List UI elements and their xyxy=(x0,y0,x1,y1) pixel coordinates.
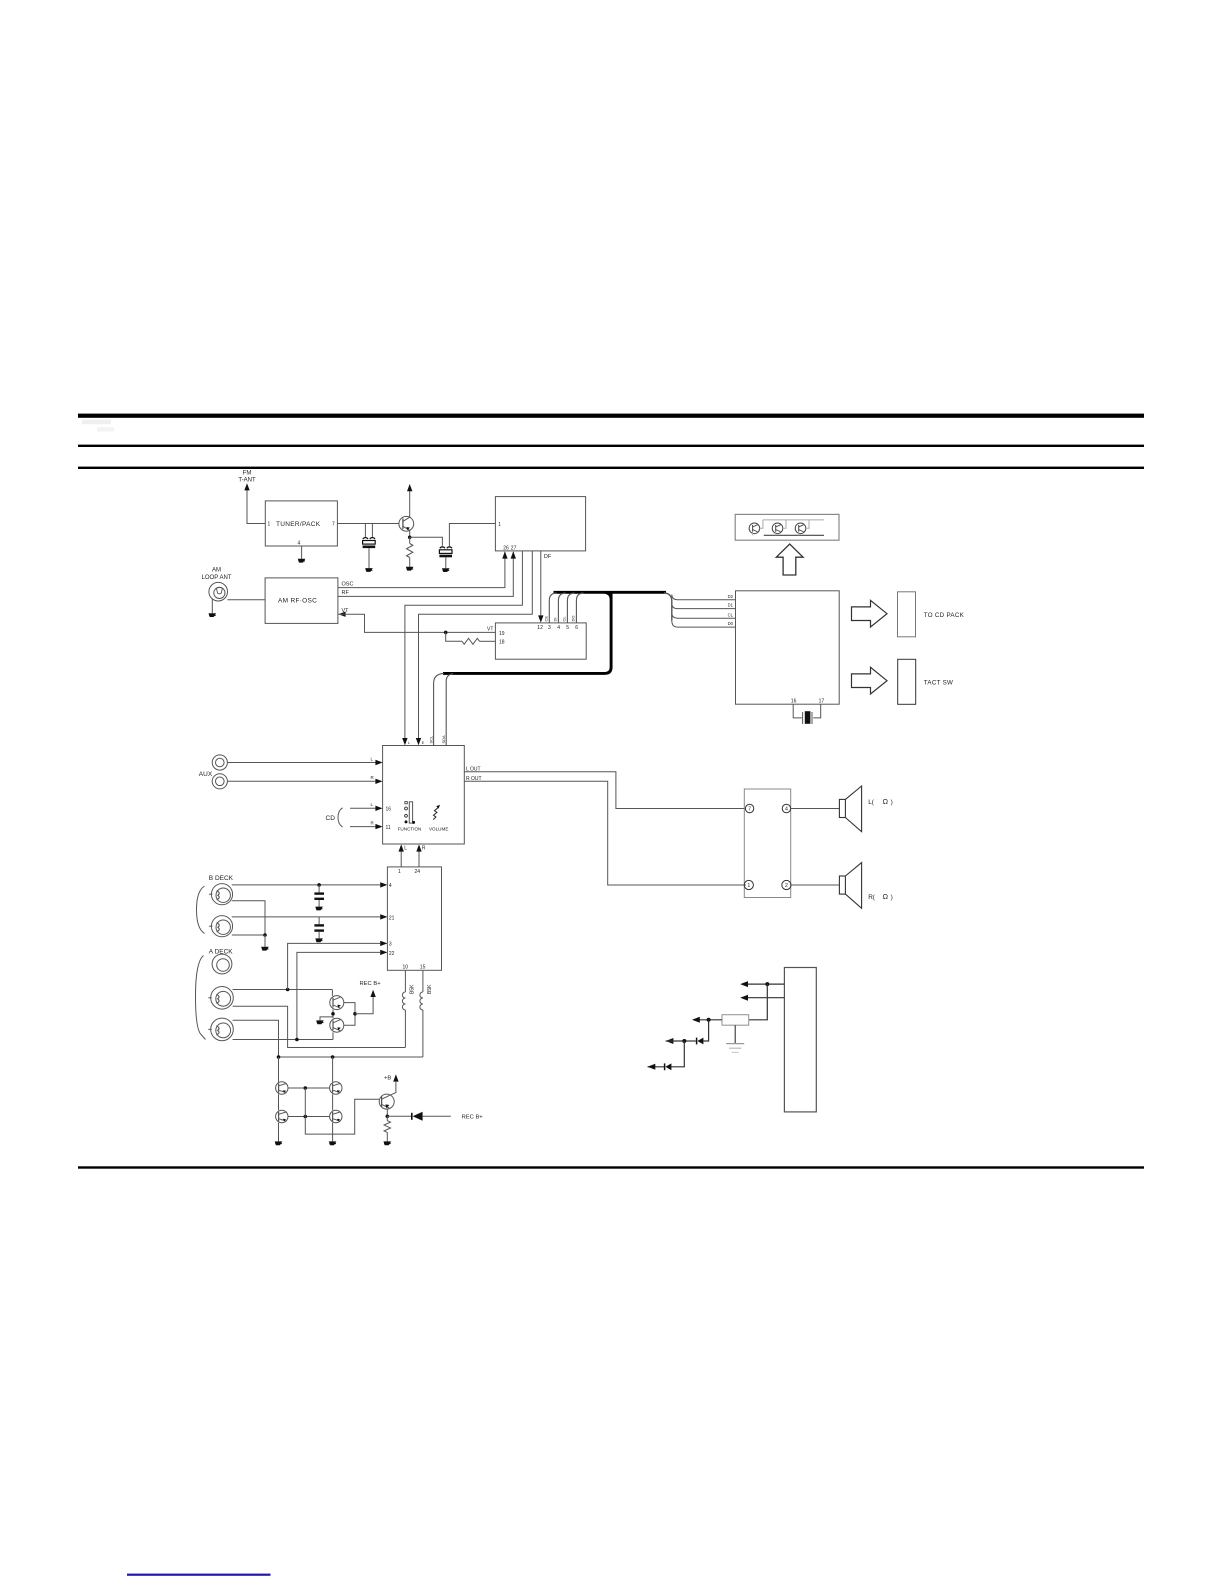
earth ground under dropper xyxy=(726,1025,744,1052)
wire pin7 to transistor base xyxy=(337,523,399,525)
dropper left wire xyxy=(699,1019,722,1021)
Q1 collector arrowhead xyxy=(407,484,412,491)
function bottom R tag xyxy=(422,846,426,852)
speaker R label xyxy=(868,892,893,901)
svg-text:): ) xyxy=(891,799,893,806)
svg-text:D1: D1 xyxy=(728,603,734,608)
SDA rotated label xyxy=(441,735,446,744)
Q8 emitter resistor xyxy=(384,1116,390,1141)
bus peel to PLL pin 5 xyxy=(567,593,574,623)
svg-text:R: R xyxy=(422,846,426,852)
bus fan wire D0 xyxy=(672,621,736,628)
B5K label 2 xyxy=(427,984,433,994)
svg-text:7: 7 xyxy=(332,522,335,528)
Q3 bottom riser xyxy=(332,1032,334,1039)
B deck head1 hot wire xyxy=(232,884,380,886)
power wire 3 arrowhead xyxy=(692,1017,700,1023)
+B arrowhead xyxy=(393,1074,398,1081)
CD L tag xyxy=(371,802,374,807)
VT wire xyxy=(338,614,495,632)
CD pin 16 label xyxy=(386,807,392,813)
capacitor C2 (B deck R) xyxy=(314,917,324,942)
VT junction dot xyxy=(444,631,448,635)
svg-text:DI: DI xyxy=(553,618,558,622)
svg-text:B DECK: B DECK xyxy=(209,875,234,882)
function bottom pin R wire xyxy=(418,851,420,867)
function bottom L tag xyxy=(404,846,407,852)
transistor Q8 (REC B+ switch) xyxy=(379,1094,394,1109)
grid riser right xyxy=(332,1057,334,1082)
svg-text:SCL: SCL xyxy=(428,735,433,744)
power wire 4 arrowhead xyxy=(666,1038,674,1044)
PLL pin 4 label xyxy=(557,625,560,631)
micom pin tag D1 xyxy=(728,603,734,608)
svg-text:1: 1 xyxy=(398,869,401,875)
power wire 2 xyxy=(747,997,784,999)
svg-text:15: 15 xyxy=(420,965,426,971)
AM loop ground xyxy=(209,613,217,617)
svg-text:16: 16 xyxy=(386,807,392,813)
volume pot symbol xyxy=(433,805,440,820)
PLL pin 5 label xyxy=(566,625,569,631)
bus taper to SCL line xyxy=(434,673,444,745)
Q1 emitter wire xyxy=(409,531,411,538)
head1 junction dot xyxy=(286,988,290,992)
A deck erase head xyxy=(212,954,232,974)
PLL rotated pin tag DO xyxy=(571,616,576,622)
B deck head 1 xyxy=(209,884,233,905)
bus taper to PLL pin 3 xyxy=(549,593,556,623)
VT label at PLL xyxy=(487,627,493,633)
svg-text:L: L xyxy=(371,802,374,807)
IF pin 27 label xyxy=(511,545,517,551)
AM RF-OSC box xyxy=(265,578,338,624)
wire emitter to trimmer CT2 xyxy=(410,537,443,546)
svg-text:L(: L( xyxy=(868,799,875,806)
svg-text:DF: DF xyxy=(544,554,552,560)
mute transistor Q2 xyxy=(330,996,344,1010)
svg-text:L: L xyxy=(408,740,411,745)
wire CT2 to IF box pin 1 xyxy=(449,524,495,547)
arrowhead into deck pin 4 xyxy=(380,882,387,887)
CD pin 11 label xyxy=(386,825,391,831)
power wire 2 arrowhead xyxy=(740,995,748,1001)
function bottom L arrowhead xyxy=(399,844,404,851)
svg-text:22: 22 xyxy=(389,951,395,957)
svg-text:L: L xyxy=(371,756,374,761)
PLL pin 3 label xyxy=(548,625,551,631)
tuner pack label xyxy=(276,521,321,528)
R OUT label xyxy=(466,776,482,782)
transistor Q5 xyxy=(330,1082,342,1094)
IF pin wire to function pin B xyxy=(419,551,533,739)
power wire 4 dot xyxy=(682,1039,686,1043)
FUNCTION label xyxy=(398,827,422,832)
rail2 mid dot xyxy=(331,1055,335,1059)
deck amp box xyxy=(387,867,441,970)
OSC pin label xyxy=(342,581,354,587)
deck pin 15 label xyxy=(420,965,426,971)
Q4-Q6 vertical xyxy=(278,1094,280,1110)
diode D2 branch xyxy=(684,1020,708,1045)
svg-text:AUX: AUX xyxy=(199,771,213,778)
Q6 ground lead xyxy=(278,1123,280,1142)
function-volume IC box xyxy=(383,746,465,845)
power dropper feed xyxy=(749,984,768,1020)
svg-text:CL: CL xyxy=(562,616,567,622)
capacitor C1 (B deck L) xyxy=(314,885,324,911)
IF DF pin wire to PLL pin 12 xyxy=(540,551,542,617)
B deck ground lead xyxy=(264,935,266,947)
tuner pack pin4 ground lead xyxy=(301,546,303,559)
arrowhead into deck pin 22 xyxy=(380,950,387,955)
connector pin 7 xyxy=(745,804,753,812)
grid riser left xyxy=(278,1057,280,1082)
trimmer capacitor CT2 xyxy=(439,547,452,572)
REC B+ label (right) xyxy=(462,1115,484,1121)
tact sw connector box xyxy=(898,659,916,704)
AUX jack R xyxy=(212,774,227,789)
svg-text:CE: CE xyxy=(544,616,549,622)
DF label xyxy=(544,554,552,560)
VT arrowhead into AM box xyxy=(338,612,345,617)
function top pin tag 2 xyxy=(422,740,425,745)
svg-text:6: 6 xyxy=(575,625,578,631)
speaker R symbol xyxy=(839,863,861,909)
PLL pin 12 label xyxy=(537,625,543,631)
svg-text:26: 26 xyxy=(503,545,509,551)
A deck head2 cold wire xyxy=(233,1039,333,1041)
svg-text:TACT SW: TACT SW xyxy=(924,679,953,686)
svg-text:3: 3 xyxy=(389,942,392,948)
pin22 riser junction dot xyxy=(295,1038,299,1042)
svg-text:TUNER/PACK: TUNER/PACK xyxy=(276,521,321,528)
B deck brace xyxy=(197,886,205,934)
VT resistor branch xyxy=(446,632,496,644)
svg-text:24: 24 xyxy=(415,869,421,875)
svg-text:RF: RF xyxy=(342,590,350,596)
svg-text:4: 4 xyxy=(389,883,392,889)
svg-text:18: 18 xyxy=(499,640,505,646)
power wire 5 arrowhead xyxy=(648,1064,656,1070)
svg-text:D0: D0 xyxy=(728,621,734,626)
AUX R tag xyxy=(371,775,375,780)
bus fan wire CL xyxy=(672,613,736,618)
tuner pack pin 7 xyxy=(332,522,335,528)
AUX jack L xyxy=(212,755,227,770)
deck pin 22 label xyxy=(389,951,395,957)
PLL pin 6 label xyxy=(575,625,578,631)
Q2 emitter dot xyxy=(331,1012,335,1016)
mute common rail xyxy=(344,1003,355,1026)
AUX R wire xyxy=(227,780,375,782)
speaker L symbol xyxy=(839,786,861,832)
svg-text:3: 3 xyxy=(548,625,551,631)
micom pin tag D0 xyxy=(728,621,734,626)
svg-text:OSC: OSC xyxy=(342,581,354,587)
function bottom R arrowhead xyxy=(416,844,421,851)
tuner pack box xyxy=(265,501,337,546)
RF pin label xyxy=(342,590,350,596)
pin 10 wire with coil xyxy=(402,970,405,1047)
bus peel to PLL pin 6 xyxy=(576,593,583,623)
TO CD PACK label xyxy=(924,612,965,619)
arrowhead B into function box xyxy=(416,738,421,745)
AM loop antenna symbol xyxy=(209,582,228,601)
LED board transistors and traces xyxy=(749,520,824,535)
AUX label xyxy=(199,771,213,778)
svg-text:16: 16 xyxy=(791,699,797,705)
REC B+ feed wire xyxy=(355,997,373,1014)
power wire 1 dot xyxy=(765,982,769,986)
speaker connector box xyxy=(744,789,790,898)
svg-text:1: 1 xyxy=(498,522,501,528)
function top pin tag 1 xyxy=(408,740,411,745)
serial bus thick trace xyxy=(443,592,666,673)
tuner pack ground xyxy=(298,559,306,563)
Q8 resistor ground xyxy=(384,1141,392,1145)
VT pin label xyxy=(342,608,350,614)
Q4-Q5 link dot xyxy=(304,1086,308,1090)
L OUT label xyxy=(466,766,481,772)
FM T-ANT label xyxy=(238,471,256,484)
junction dot on head1 wire xyxy=(317,883,321,887)
B5K label 1 xyxy=(410,984,416,994)
OSC wire to IF pin 26 xyxy=(338,552,505,588)
svg-text:AM: AM xyxy=(212,568,221,574)
PLL rotated pin tag DI xyxy=(553,618,558,622)
svg-text:11: 11 xyxy=(386,825,391,831)
micom pin 16 label xyxy=(791,699,797,705)
svg-text:Ω: Ω xyxy=(883,797,889,806)
svg-text:B5K: B5K xyxy=(410,984,416,994)
Q1 collector wire xyxy=(409,491,411,517)
IF pin wire to function pin A xyxy=(405,551,523,739)
micom pin tag CL xyxy=(728,612,734,617)
A deck head 1 xyxy=(208,987,233,1010)
pin 15 wire with coil xyxy=(420,970,423,1057)
deck pin 3 label xyxy=(389,942,392,948)
svg-text:2: 2 xyxy=(785,883,788,889)
Q8 emitter dot xyxy=(386,1115,390,1119)
bus fan wire D2 xyxy=(672,595,736,600)
pin 3 riser xyxy=(288,943,381,989)
mute rail dot xyxy=(353,1012,357,1016)
PLL pin 19 label xyxy=(499,631,505,637)
Q1 emitter resistor xyxy=(407,537,413,567)
Q7 ground lead xyxy=(332,1123,334,1142)
CD L arrowhead xyxy=(375,806,382,811)
transistor Q4 xyxy=(276,1082,288,1094)
deck pin 1 label xyxy=(398,869,401,875)
VOLUME label xyxy=(429,827,448,832)
LED/transistor board box xyxy=(735,514,839,540)
svg-text:R(: R( xyxy=(868,894,876,901)
R OUT wire xyxy=(464,781,746,885)
svg-text:Ω: Ω xyxy=(883,892,889,901)
svg-text:5: 5 xyxy=(566,625,569,631)
svg-text:TO CD PACK: TO CD PACK xyxy=(924,612,965,619)
Q1 resistor ground xyxy=(406,567,414,571)
rail2 corner dot xyxy=(277,1055,281,1059)
A DECK label xyxy=(209,949,234,956)
B deck head2 hot wire xyxy=(232,916,380,918)
svg-text:SDA: SDA xyxy=(441,735,446,744)
page top thick rule xyxy=(78,414,1144,418)
svg-text:21: 21 xyxy=(389,915,395,921)
svg-text:1: 1 xyxy=(747,883,750,889)
B deck cold wires xyxy=(232,901,265,935)
AUX L wire xyxy=(227,762,375,764)
PLL pin 18 label xyxy=(499,640,505,646)
svg-text:4: 4 xyxy=(298,541,301,547)
CD brace xyxy=(338,808,343,827)
PLL rotated pin tag CL xyxy=(562,616,567,622)
svg-text:R: R xyxy=(371,820,375,825)
svg-text:1: 1 xyxy=(268,522,271,528)
A deck brace xyxy=(196,956,206,1040)
IF IC box xyxy=(495,497,585,551)
CD R tag xyxy=(371,820,375,825)
bus right fan spine xyxy=(664,593,672,621)
connector pin 1 xyxy=(744,880,753,889)
B deck head 2 xyxy=(209,916,233,937)
pin 22 riser xyxy=(297,952,380,1039)
speaker L label xyxy=(868,797,893,806)
A deck head1 hot wire xyxy=(233,989,333,991)
TACT SW label xyxy=(924,679,953,686)
svg-text:12: 12 xyxy=(537,625,543,631)
REC B+ label (deck) xyxy=(360,981,382,987)
diode D3 branch xyxy=(648,1041,685,1070)
hollow up arrow to LED board xyxy=(776,544,803,575)
svg-text:CL: CL xyxy=(728,612,734,617)
micom box xyxy=(736,591,840,704)
deck pin 10 label xyxy=(403,965,409,971)
svg-text:7: 7 xyxy=(748,807,751,813)
diode D1 xyxy=(387,1112,451,1121)
tuner pack pin 1 xyxy=(268,522,271,528)
+B label xyxy=(384,1075,391,1081)
page third rule xyxy=(78,467,1144,469)
Q2-Q3 emitter link xyxy=(332,1009,334,1018)
link verticals xyxy=(304,1088,306,1117)
power supply box xyxy=(784,968,816,1112)
A deck head 2 xyxy=(208,1018,233,1041)
CD label xyxy=(326,815,336,822)
A deck head2 hot wire xyxy=(233,1020,423,1057)
micom crystal leads xyxy=(793,704,821,718)
mute transistor Q3 xyxy=(330,1018,344,1032)
CD L wire xyxy=(350,807,376,809)
svg-text:R: R xyxy=(371,775,375,780)
PLL rotated pin tag CE xyxy=(544,616,549,622)
svg-text:REC B+: REC B+ xyxy=(462,1115,484,1121)
Q5-Q7 vertical xyxy=(332,1094,334,1110)
Q1 emitter junction dot xyxy=(408,536,412,540)
Q6-Q7 link dot xyxy=(304,1115,308,1119)
arrowhead into deck pin 21 xyxy=(380,914,387,919)
SCL rotated label xyxy=(428,735,433,744)
svg-text:4: 4 xyxy=(785,807,788,813)
connector pin 4 xyxy=(782,804,790,812)
hollow arrow to tact sw xyxy=(852,667,888,694)
AUX L arrowhead xyxy=(375,760,382,765)
RF arrowhead into IF box xyxy=(511,551,516,558)
svg-text:LOOP ANT: LOOP ANT xyxy=(202,575,232,581)
svg-text:E: E xyxy=(422,740,425,745)
svg-text:17: 17 xyxy=(819,699,825,705)
B DECK label xyxy=(209,875,234,882)
function bottom pin L wire xyxy=(400,851,402,867)
svg-text:VOLUME: VOLUME xyxy=(429,827,448,832)
Q2 collector riser xyxy=(331,990,333,996)
power wire 1 arrowhead xyxy=(740,981,748,987)
page second rule xyxy=(78,445,1144,447)
tuner pack pin 4 xyxy=(298,541,301,547)
micom pin 17 label xyxy=(819,699,825,705)
bus peel to SDA line xyxy=(446,674,453,746)
footer blue underline xyxy=(127,1574,271,1576)
svg-text:REC B+: REC B+ xyxy=(360,981,382,987)
Q6-Q7 link wire xyxy=(288,1116,330,1118)
wire loop to AM box xyxy=(227,599,265,601)
svg-text:D2: D2 xyxy=(728,594,734,599)
deck pin 4 label xyxy=(389,883,392,889)
Q8 collector wire xyxy=(389,1081,396,1096)
wire pin4 to L speaker xyxy=(791,808,840,810)
power wire 4 stub xyxy=(666,1040,685,1042)
transistor Q1 (FM RF) xyxy=(399,516,414,531)
CD pack connector box xyxy=(898,592,916,637)
svg-text:4: 4 xyxy=(557,625,560,631)
svg-text:19: 19 xyxy=(499,631,505,637)
bus peel to PLL pin 4 xyxy=(558,593,565,623)
svg-text:AM RF·OSC: AM RF·OSC xyxy=(278,598,317,605)
AM LOOP ANT label xyxy=(202,568,232,582)
svg-text:27: 27 xyxy=(511,545,517,551)
svg-text:B5K: B5K xyxy=(427,984,433,994)
faint header ghost text xyxy=(82,420,114,432)
trimmer capacitor CT1 xyxy=(363,524,376,572)
svg-text:CD: CD xyxy=(326,815,336,822)
page bottom rule xyxy=(78,1166,1144,1168)
svg-text:10: 10 xyxy=(403,965,409,971)
Q4-Q5 link wire xyxy=(288,1087,330,1089)
dropper resistor box xyxy=(722,1015,749,1025)
arrowhead into deck pin 3 xyxy=(380,941,387,946)
DF arrowhead into PLL xyxy=(538,615,543,622)
svg-text:): ) xyxy=(891,894,893,901)
bus fan wire D1 xyxy=(672,603,736,608)
AM RF-OSC label xyxy=(278,598,317,605)
hollow arrow to CD pack xyxy=(852,600,888,627)
svg-text:DO: DO xyxy=(571,616,576,622)
svg-text:FUNCTION: FUNCTION xyxy=(398,827,422,832)
AM loop ground lead xyxy=(211,599,213,614)
A deck head1 cold wire xyxy=(233,1006,406,1047)
function selector symbol xyxy=(405,802,416,824)
L OUT wire xyxy=(464,772,746,809)
svg-text:+B: +B xyxy=(384,1075,391,1081)
REC B+ arrowhead (deck) xyxy=(370,990,375,997)
FM antenna arrowhead xyxy=(244,483,249,490)
power wire 1 xyxy=(747,983,784,985)
AUX R arrowhead xyxy=(375,779,382,784)
IF pin 26 label xyxy=(503,545,509,551)
Q7 ground xyxy=(329,1141,337,1145)
svg-text:T-ANT: T-ANT xyxy=(238,478,256,484)
